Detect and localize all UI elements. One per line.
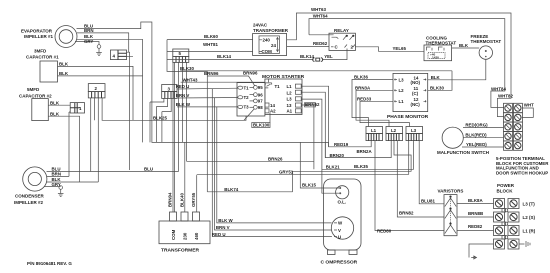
svg-text:13: 13 <box>287 103 292 108</box>
power block row L2 <box>494 212 536 222</box>
terminal block 2 <box>88 84 105 98</box>
svg-text:BLK100: BLK100 <box>253 123 270 128</box>
svg-text:POWER: POWER <box>497 183 515 188</box>
wire BLK30 bus <box>180 66 452 71</box>
svg-text:(NO): (NO) <box>411 80 421 85</box>
motor starter overload block <box>237 74 305 116</box>
svg-text:WHT63: WHT63 <box>311 7 326 12</box>
svg-text:BRN8B: BRN8B <box>468 211 483 216</box>
svg-text:BRN: BRN <box>52 172 62 177</box>
svg-text:BLK60: BLK60 <box>204 34 218 39</box>
svg-text:BLK W: BLK W <box>218 218 233 223</box>
svg-text:BLK14: BLK14 <box>217 54 231 59</box>
svg-text:BLK: BLK <box>59 62 69 67</box>
wire BLK cooling to freeze <box>452 43 480 48</box>
svg-text:T3: T3 <box>244 105 250 110</box>
svg-text:A2: A2 <box>270 109 276 114</box>
power block tabs <box>502 209 508 240</box>
svg-text:97: 97 <box>258 99 263 104</box>
wire RED62 secondary to relay <box>287 41 329 46</box>
svg-text:EVAPORATOR: EVAPORATOR <box>21 29 53 34</box>
motor starter contactor <box>265 79 302 115</box>
svg-text:WHT84: WHT84 <box>491 86 506 91</box>
svg-text:BLU: BLU <box>144 167 153 172</box>
wire from block 3 teeth <box>150 98 171 111</box>
wire freeze to phase monitor 14 <box>428 59 486 80</box>
svg-text:BRN82: BRN82 <box>399 211 414 216</box>
svg-text:WHT64: WHT64 <box>313 13 328 18</box>
svg-text:460: 460 <box>194 232 199 240</box>
svg-text:O.L.: O.L. <box>338 200 347 205</box>
svg-text:WHT82: WHT82 <box>498 94 513 99</box>
wire BLU evaporator <box>77 22 152 142</box>
fuse block L1 <box>366 127 383 141</box>
svg-text:L1 (R): L1 (R) <box>523 229 536 234</box>
wire BRN62 from 13 <box>301 102 320 107</box>
svg-text:THERMOSTAT: THERMOSTAT <box>471 39 502 44</box>
wire varistor row2 to power block L2 <box>457 211 494 217</box>
wire BLK cap2 top to terminal 1 <box>48 100 70 105</box>
relay K1 <box>329 28 355 51</box>
wire power block ground stub <box>469 244 494 259</box>
svg-text:L1: L1 <box>287 84 293 89</box>
svg-text:MALFUNCTION SWITCH: MALFUNCTION SWITCH <box>437 150 489 155</box>
wire BLK cap2 bottom <box>48 111 79 182</box>
label WHT84 <box>491 86 506 91</box>
svg-text:L2 (S): L2 (S) <box>523 215 536 220</box>
power block row ground <box>494 239 531 249</box>
ground G2 <box>58 186 64 197</box>
power block row L1 <box>494 226 536 236</box>
svg-text:BRN20: BRN20 <box>330 153 345 158</box>
svg-text:COM: COM <box>171 229 176 240</box>
svg-text:L1: L1 <box>371 128 377 133</box>
svg-text:T2: T2 <box>244 95 250 100</box>
power block <box>497 183 515 194</box>
svg-text:L3: L3 <box>411 128 417 133</box>
label 5-position note <box>496 156 549 175</box>
wire RED(ORG) <box>463 122 504 127</box>
varistors <box>438 189 464 236</box>
svg-text:BRN3A: BRN3A <box>355 86 371 91</box>
freeze thermostat S2 <box>471 34 502 59</box>
svg-text:1430: 1430 <box>432 56 439 60</box>
svg-text:IMPELLER #1: IMPELLER #1 <box>24 34 54 39</box>
svg-text:BLK36: BLK36 <box>354 75 368 80</box>
svg-text:L3 (T): L3 (T) <box>523 202 536 207</box>
wire BLK cap1 bottom <box>58 39 143 142</box>
wire BLK15 to OL <box>300 142 337 188</box>
svg-text:24VAC: 24VAC <box>253 23 268 28</box>
wire from block 2 teeth <box>91 98 153 182</box>
svg-text:BRN V: BRN V <box>216 225 230 230</box>
svg-text:PHASE MONITOR: PHASE MONITOR <box>387 114 429 120</box>
capacitor C1 3MFD CAPACITOR #1 <box>26 49 59 83</box>
svg-text:BLK: BLK <box>50 111 60 116</box>
svg-text:RED62: RED62 <box>313 41 328 46</box>
wire YEL(RED) <box>462 142 504 147</box>
svg-text:THERMOSTAT: THERMOSTAT <box>426 40 457 45</box>
svg-text:T1: T1 <box>275 84 281 89</box>
svg-text:L1: L1 <box>399 99 405 104</box>
wire varistor row1 to power block L3 <box>457 198 494 203</box>
wire BRN20 fuse L2 <box>325 141 391 158</box>
wire starter L1 down <box>301 86 328 147</box>
svg-text:95: 95 <box>258 85 263 90</box>
svg-text:YEL: YEL <box>324 54 333 59</box>
svg-text:BLOCK: BLOCK <box>497 188 514 193</box>
svg-text:BLK8A: BLK8A <box>468 198 483 203</box>
svg-text:240: 240 <box>263 38 271 43</box>
terminal block 1 <box>70 103 84 113</box>
svg-text:P/N 89106481 REV. G: P/N 89106481 REV. G <box>27 261 72 266</box>
svg-text:GRY51: GRY51 <box>279 170 294 175</box>
wire WHT64 top rail to relay <box>309 13 505 107</box>
compressor <box>321 179 362 266</box>
svg-text:BRN V: BRN V <box>176 93 190 98</box>
wire BLK100 from 98 <box>244 109 270 128</box>
wire vertical bus left <box>150 102 162 142</box>
wire step fuse L2 <box>293 141 412 192</box>
wire fuse L2 to varistor row2 BRN82 <box>397 141 444 217</box>
wire BLK25 <box>153 116 246 121</box>
wire RED U to starter T1 <box>176 84 238 89</box>
svg-text:BLK(RED): BLK(RED) <box>465 133 487 138</box>
wire BLK40 transformer <box>179 142 185 212</box>
svg-text:RED19: RED19 <box>334 142 349 147</box>
svg-text:L3: L3 <box>399 77 405 82</box>
svg-text:230: 230 <box>183 232 188 240</box>
svg-text:CONDENSER: CONDENSER <box>15 194 45 199</box>
svg-text:GRY: GRY <box>84 39 93 44</box>
wire WHT43 <box>181 77 265 82</box>
wire BLK(RED) <box>463 133 503 138</box>
svg-text:14: 14 <box>270 103 275 108</box>
malfunction switch <box>437 127 489 155</box>
svg-text:WHT: WHT <box>524 103 534 108</box>
svg-text:BLK: BLK <box>59 71 69 76</box>
wire starter L2 down <box>301 92 325 157</box>
svg-text:BLK15: BLK15 <box>302 183 316 188</box>
svg-text:BRN: BRN <box>84 28 94 33</box>
wire BRN condenser <box>47 172 69 177</box>
capacitor C2 5MFD CAPACITOR #2 <box>19 87 52 121</box>
wire BLK60 <box>167 34 253 39</box>
svg-text:L3: L3 <box>287 97 293 102</box>
wire bus group to compressor V <box>215 98 332 230</box>
svg-text:BLK14: BLK14 <box>300 54 314 59</box>
wire WHT63 secondary to right rail <box>287 7 511 116</box>
svg-text:BLK: BLK <box>431 75 441 80</box>
svg-text:RED33: RED33 <box>357 97 372 102</box>
svg-text:RED U: RED U <box>212 232 226 237</box>
svg-text:L2: L2 <box>391 128 397 133</box>
svg-text:COM: COM <box>262 49 273 54</box>
wire long row 142 <box>152 141 329 143</box>
svg-text:5MFD: 5MFD <box>27 87 40 92</box>
svg-text:BLK30: BLK30 <box>430 85 444 90</box>
wire fuse L1 to varistor row3 RED80 <box>375 141 444 234</box>
svg-text:TRANSFORMER: TRANSFORMER <box>253 28 289 33</box>
wire GRY55 transformer <box>191 175 197 212</box>
svg-text:BLK40: BLK40 <box>179 193 184 207</box>
svg-text:VARISTORS: VARISTORS <box>438 189 464 194</box>
label WHT82 <box>498 94 513 99</box>
svg-text:96: 96 <box>258 92 263 97</box>
svg-text:L2: L2 <box>399 88 405 93</box>
wire BRN94 transformer <box>168 62 174 212</box>
wire WHT jumper <box>522 103 534 118</box>
svg-text:BLK: BLK <box>459 43 469 48</box>
svg-text:BRN2A: BRN2A <box>357 149 373 154</box>
svg-text:(C): (C) <box>412 91 419 96</box>
svg-text:C OMPRESSOR: C OMPRESSOR <box>321 260 358 266</box>
svg-text:GRY55: GRY55 <box>191 192 196 207</box>
wire GRY evaporator to ground <box>75 39 99 45</box>
wire GRY condenser to ground <box>44 182 61 187</box>
svg-text:RED82: RED82 <box>468 224 483 229</box>
svg-text:BLK25: BLK25 <box>153 116 167 121</box>
svg-text:DOOR SWITCH HOOKUP: DOOR SWITCH HOOKUP <box>496 170 548 175</box>
fuse block L2 <box>386 127 403 141</box>
wire varistor row3 to power block L1 <box>457 224 494 231</box>
svg-text:CAPACITOR #1: CAPACITOR #1 <box>26 55 59 60</box>
svg-text:BRN94: BRN94 <box>168 192 173 207</box>
wire GRY51 row <box>197 141 409 175</box>
svg-text:BLK W: BLK W <box>176 102 191 107</box>
svg-text:98: 98 <box>258 105 263 110</box>
phase monitor U2 <box>387 73 429 120</box>
fuse block L3 <box>406 127 423 141</box>
wire BRN96 <box>204 71 258 86</box>
terminal block 3 <box>162 85 177 99</box>
svg-text:V: V <box>338 228 341 233</box>
wire fuse L3 to varistor row1 BLU81 <box>419 141 444 204</box>
svg-text:A1: A1 <box>287 109 293 114</box>
wire BLK condenser <box>46 177 98 182</box>
svg-text:YEL(RED): YEL(RED) <box>466 142 487 147</box>
transformer T1 (main) <box>159 212 210 254</box>
cooling thermostat S1 <box>424 36 456 61</box>
wire RED33 phase L1 <box>357 97 410 127</box>
svg-text:BLK74: BLK74 <box>224 187 238 192</box>
wire BLK14 with splice to relay bottom <box>167 51 347 62</box>
svg-text:RED80: RED80 <box>377 228 392 233</box>
svg-text:WHT43: WHT43 <box>183 77 198 82</box>
svg-text:RELAY: RELAY <box>334 28 349 33</box>
wire vertical 313 <box>313 105 315 169</box>
svg-text:BRN96: BRN96 <box>204 71 219 76</box>
svg-text:YEL65: YEL65 <box>393 46 407 51</box>
wire bus group to compressor U <box>212 89 332 237</box>
wire BLK21 BLK35 fuse L3 to compressor OL <box>322 141 414 170</box>
svg-text:BRN96: BRN96 <box>243 71 258 76</box>
wire WHT81 24VAC COM <box>167 40 253 72</box>
svg-text:BLK35: BLK35 <box>354 164 368 169</box>
svg-text:L2: L2 <box>287 90 293 95</box>
wire from block 5 teeth <box>175 62 187 212</box>
svg-text:RED(ORG): RED(ORG) <box>465 122 488 127</box>
motor M1 EVAPORATOR IMPELLER #1 <box>21 26 77 48</box>
wire BRN26 row <box>187 157 314 162</box>
wire BLU condenser <box>47 167 179 172</box>
wire BLK W to starter T3 <box>176 102 238 107</box>
svg-text:BRN62: BRN62 <box>305 102 320 107</box>
svg-text:BLK: BLK <box>50 100 60 105</box>
wire BRN evaporator <box>77 28 129 52</box>
svg-text:U: U <box>338 235 341 240</box>
svg-text:TRANSFORMER: TRANSFORMER <box>161 248 200 254</box>
svg-text:BLU81: BLU81 <box>421 198 435 203</box>
wire BLK74 row <box>207 187 292 192</box>
wire starter L3 down to OL <box>301 99 337 193</box>
svg-text:RED U: RED U <box>176 84 190 89</box>
svg-text:BLK21: BLK21 <box>326 165 340 170</box>
wire BRN V to starter T2 <box>176 93 238 98</box>
5-position terminal block <box>504 103 523 150</box>
wire RED19 fuse L1 <box>329 141 372 147</box>
svg-text:3MFD: 3MFD <box>34 49 47 54</box>
ground G1 <box>96 45 102 56</box>
svg-text:BLK30: BLK30 <box>180 66 194 71</box>
wire BLK36 phase L3 <box>352 75 393 127</box>
svg-text:24: 24 <box>271 43 276 48</box>
svg-text:BRN26: BRN26 <box>268 157 283 162</box>
svg-text:T1: T1 <box>244 86 250 91</box>
motor M2 CONDENSER IMPELLER #2 <box>14 167 47 205</box>
wire YEL65 relay to cooling thermostat <box>355 46 424 51</box>
wire BLK30 phase 11 to cooling <box>428 71 452 91</box>
terminal block 5 <box>173 49 189 62</box>
svg-text:(NC): (NC) <box>411 102 421 107</box>
transformer T2 24VAC TRANSFORMER <box>253 23 289 56</box>
svg-text:IMPELLER #2: IMPELLER #2 <box>14 200 44 205</box>
terminal block 4 <box>111 50 134 170</box>
wire bus group 4 <box>206 71 208 191</box>
wire BRN3A phase L2 <box>355 86 393 127</box>
svg-text:CAPACITOR #2: CAPACITOR #2 <box>19 94 52 99</box>
svg-text:WHT81: WHT81 <box>203 42 218 47</box>
power block row L3 <box>494 199 536 209</box>
wire BLK cap1 top <box>58 62 134 121</box>
wire BLK60 evaporator to 24VAC transformer <box>77 34 143 39</box>
wire bus group to compressor W <box>217 107 332 223</box>
